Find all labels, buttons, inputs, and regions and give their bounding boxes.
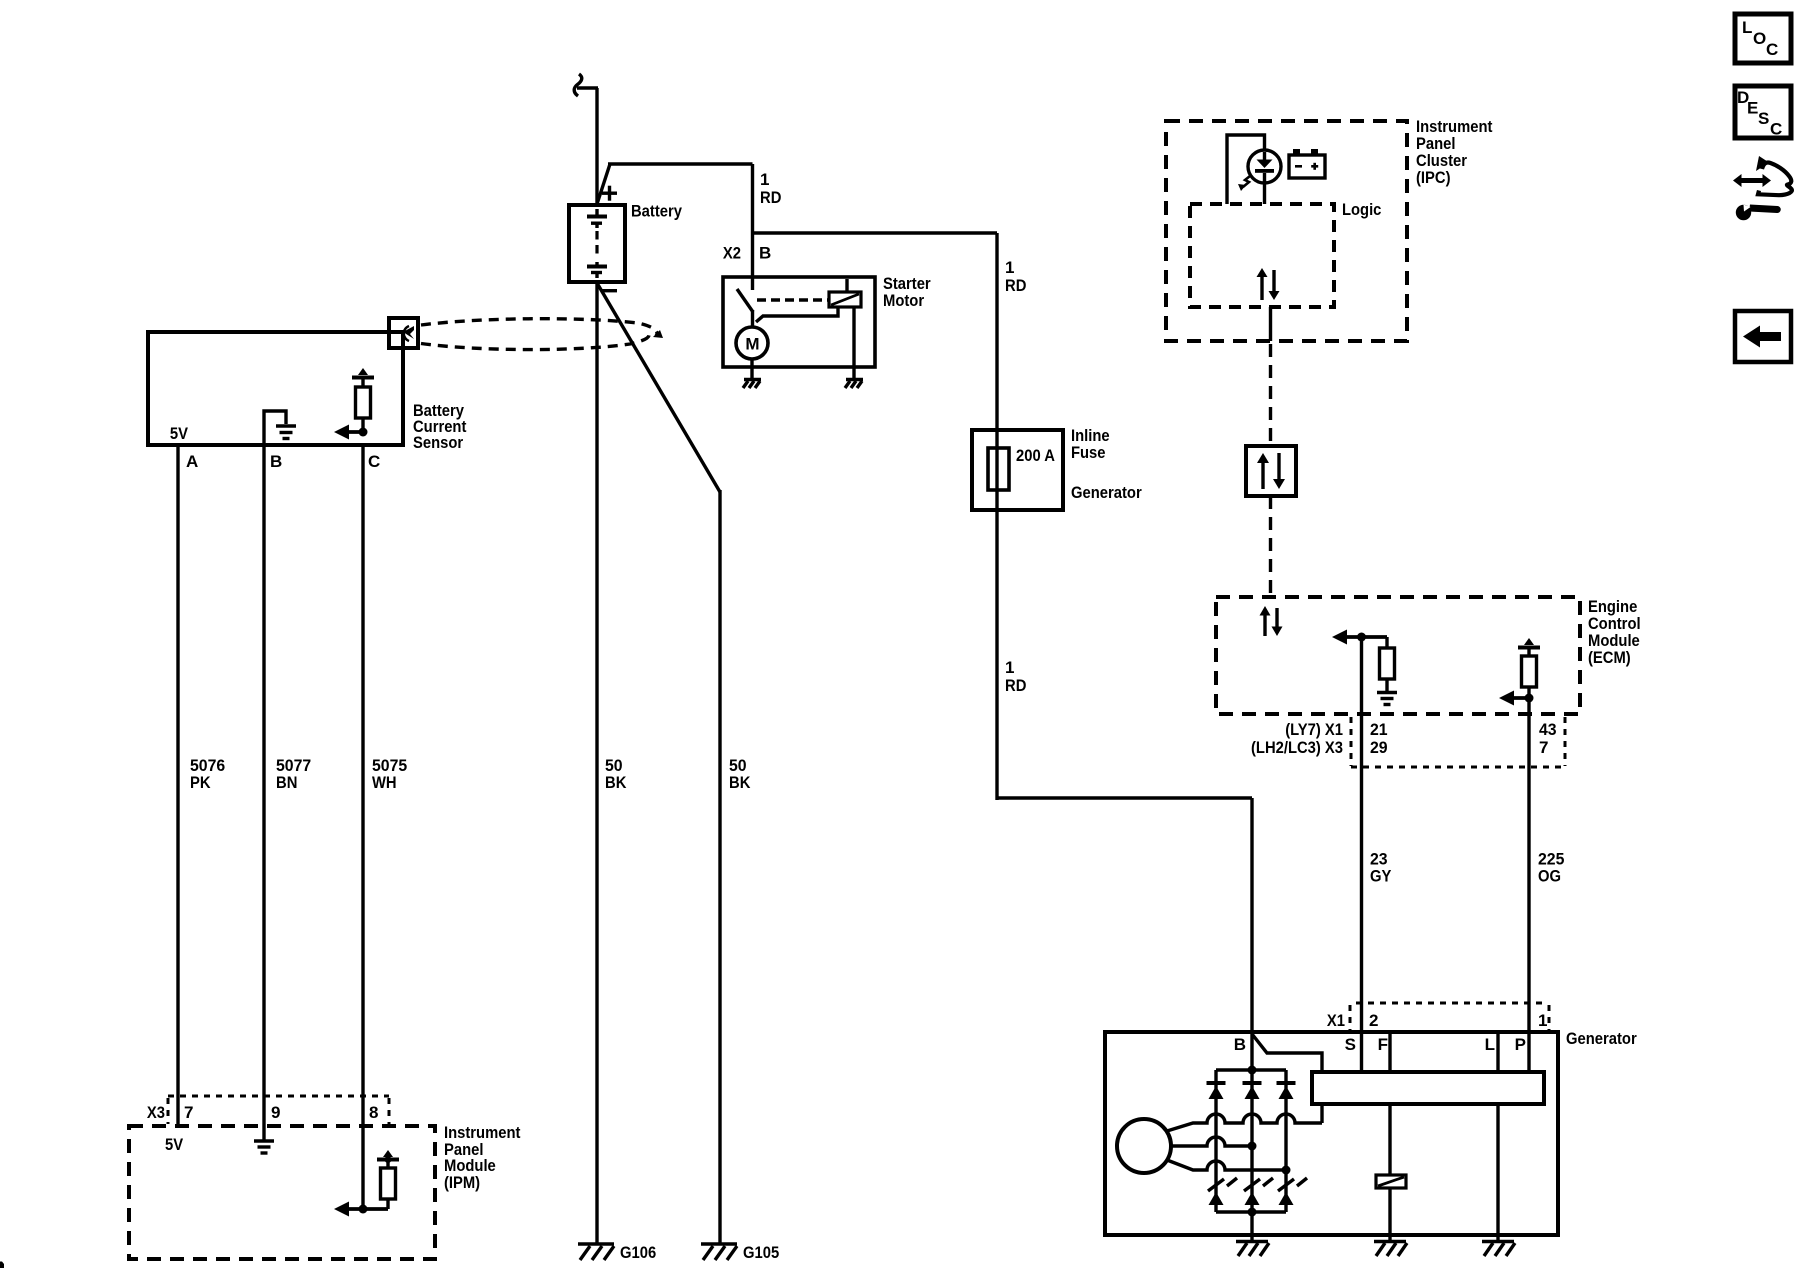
wire pin C [361,445,364,1209]
battery current sensor box [148,332,403,445]
svg-text:B: B [759,244,771,263]
rectifier bottom bus [1216,1210,1286,1213]
svg-text:8: 8 [369,1103,378,1122]
svg-text:7: 7 [1539,738,1548,757]
solenoid coil top wire [845,279,848,292]
svg-text:RD: RD [1005,276,1026,295]
lasso arrow tip [653,330,663,338]
B pin diagonal to regulator [1252,1034,1322,1072]
wire battery positive cable (top) [595,88,598,205]
IPC telltale wire loop [1227,135,1265,204]
ECM connector dotted box [1351,717,1565,767]
Logic dashed box [1190,204,1334,307]
svg-text:G106: G106 [620,1243,656,1262]
svg-text:Fuse: Fuse [1071,443,1106,462]
svg-text:21: 21 [1370,720,1388,739]
svg-text:RD: RD [1005,676,1026,695]
top diode 2 [1243,1081,1262,1099]
rectifier leg 3 [1284,1070,1287,1212]
svg-text:(ECM): (ECM) [1588,648,1631,667]
field F wire to coil [1388,1104,1391,1175]
svg-text:29: 29 [1370,738,1388,757]
svg-text:F: F [1378,1035,1388,1054]
starter solenoid dashed link [757,298,828,301]
ECM pin43 element T-bar [1518,638,1540,656]
starter solenoid coil box [829,292,861,307]
phase C junction [1282,1166,1291,1175]
wire 50 BK to G105 [718,490,721,1244]
sensor element (pin C): T-bar [352,368,374,387]
wire ECM 43 to generator P [1527,698,1530,1072]
zener slash 1 [1208,1178,1237,1191]
svg-text:PK: PK [190,773,211,792]
off-page squiggle symbol [574,74,582,96]
Instrument Panel Module dashed box [129,1126,435,1259]
ECM pin21 element ground [1377,693,1397,705]
svg-text:BN: BN [276,773,297,792]
wire splice diagonal to battery + [597,164,610,204]
generator X1 connector dashed [1350,1003,1549,1030]
svg-text:2: 2 [1369,1011,1378,1030]
LED light arrow [1238,176,1250,191]
rectifier ground wire [1250,1212,1253,1240]
IPM sensor element: left arrow + junction [334,1202,388,1217]
svg-text:B: B [270,452,282,471]
ECM serial arrows [1260,606,1283,636]
rectifier leg 1 [1214,1070,1217,1212]
svg-text:BK: BK [605,773,627,792]
svg-text:E: E [1747,99,1758,118]
bottom diode 2 [1245,1192,1260,1205]
DESC box icon [1735,86,1791,139]
svg-text:X3: X3 [147,1103,165,1122]
solenoid chassis ground [845,380,863,389]
svg-text:WH: WH [372,773,397,792]
dashed serial data wire (upper) [1269,344,1272,446]
dashed serial data wire (lower) [1269,496,1272,597]
svg-text:B: B [1234,1035,1246,1054]
svg-text:P: P [1515,1035,1526,1054]
starter switch to motor wire [751,310,754,328]
svg-text:5V: 5V [170,424,189,443]
svg-text:S: S [1758,109,1769,128]
clamp glyph inside square [403,326,414,341]
svg-text:OG: OG [1538,867,1561,886]
L chassis ground [1482,1242,1515,1257]
wire pin B [262,445,265,1141]
svg-text:7: 7 [184,1103,193,1122]
wire generator B vertical [1250,798,1253,1033]
bottom diode 3 [1279,1192,1294,1205]
svg-text:X2: X2 [723,244,741,263]
svg-text:43: 43 [1539,720,1557,739]
voltage regulator box [1312,1072,1544,1104]
ground symbol inside sensor (pin B) [264,411,296,443]
rectifier bus junction [1248,1066,1257,1075]
Engine Control Module dashed box [1216,597,1580,714]
svg-text:Generator: Generator [1566,1029,1637,1048]
starter motor M circle [736,327,768,359]
wire to starter feed (horizontal) [608,162,753,165]
svg-text:Logic: Logic [1342,200,1381,219]
svg-text:L: L [1742,18,1752,37]
wire battery negative cable [595,281,598,1244]
battery + label [602,186,617,201]
svg-text:O: O [1753,29,1766,48]
svg-text:S: S [1345,1035,1356,1054]
svg-text:RD: RD [760,188,781,207]
LED indicator circle [1248,150,1281,183]
svg-text:5V: 5V [165,1135,184,1154]
zener slash 2 [1244,1178,1273,1191]
F pin line [1388,1034,1391,1072]
wire pin A [176,445,179,1126]
svg-text:Generator: Generator [1071,483,1142,502]
Instrument Panel Cluster dashed box [1166,121,1407,341]
svg-text:(IPM): (IPM) [444,1173,480,1192]
svg-text:200 A: 200 A [1016,446,1055,465]
rectifier top bus [1216,1068,1286,1071]
svg-text:A: A [186,452,198,471]
wire starter feed vertical [751,164,754,290]
wire squiggle to corner [577,86,598,89]
bottom diode 1 [1209,1192,1224,1205]
svg-text:Motor: Motor [883,291,924,310]
stator phase B row [1171,1137,1252,1146]
serial box arrows [1257,453,1285,489]
battery - label [602,289,617,292]
logic serial arrows [1257,268,1280,300]
wire ECM 21 to generator S [1360,637,1363,1072]
starter motor ground wire [750,359,753,378]
svg-text:C: C [1766,40,1778,59]
svg-text:BK: BK [729,773,751,792]
svg-text:Battery: Battery [631,202,682,221]
svg-text:L: L [1485,1035,1495,1054]
inline fuse box [972,430,1063,510]
LOC box icon [1735,14,1791,63]
rectifier leg 2 (B) [1250,1034,1253,1212]
ground G105 [701,1244,737,1260]
svg-text:M: M [745,335,759,354]
ground G106 [578,1244,614,1260]
svg-text:(LY7) X1: (LY7) X1 [1285,720,1343,739]
solenoid coil ground wire [852,307,855,378]
IPM sensor element T-bar [377,1150,399,1168]
zener slash 3 [1278,1178,1307,1191]
IPM sensor element resistor [381,1168,396,1209]
ECM pin43 element resistor [1522,656,1537,687]
bottom bus junction [1248,1208,1257,1217]
sensor element resistor [356,387,371,418]
wire diagonal branch to G105 [597,283,720,492]
svg-text:X1: X1 [1327,1011,1345,1030]
svg-text:C: C [368,452,380,471]
diagnostic wrench icon [1733,156,1792,220]
ECM pin21 element resistor [1380,637,1395,691]
wire branch to inline fuse [753,231,998,234]
page edge artifact [0,1262,4,1269]
regulator to stator sense wire [1320,1104,1323,1123]
ECM pin43 element junction + left arrow [1499,687,1534,706]
field coil to ground wire [1388,1188,1391,1240]
starter motor box [723,277,875,367]
connector X3 dotted (IPM) [168,1096,389,1124]
svg-text:G105: G105 [743,1243,779,1262]
stator phase C row [1167,1160,1286,1170]
svg-text:1: 1 [1005,258,1014,277]
generator box [1105,1032,1558,1235]
wire logic to IPC edge [1269,307,1272,341]
wire to inline fuse [995,233,998,800]
serial data connector box [1246,446,1296,496]
LED diode symbol [1255,152,1274,204]
sensor element junction + left arrow [334,418,368,440]
svg-text:(LH2/LC3) X3: (LH2/LC3) X3 [1251,738,1343,757]
battery box [569,205,625,282]
svg-text:(IPC): (IPC) [1416,168,1451,187]
L wire to ground [1496,1104,1499,1240]
ground symbol in IPM (pin 9) [254,1141,274,1153]
back arrow box icon [1735,311,1791,362]
svg-text:1: 1 [1005,658,1014,677]
svg-text:C: C [1770,120,1782,139]
starter switch arm [737,289,753,312]
stator phase A row [1167,1114,1322,1131]
stator circle [1117,1119,1171,1173]
phase B junction [1248,1142,1257,1151]
battery plates [587,209,607,278]
wire fuse to generator B horizontal [997,796,1252,799]
starter motor chassis ground [743,380,761,389]
field coil box [1376,1175,1406,1188]
svg-text:9: 9 [271,1103,280,1122]
svg-text:Sensor: Sensor [413,433,463,452]
top diode 1 [1207,1081,1226,1099]
IPC battery icon [1289,149,1325,178]
dashed lasso ellipse around battery cable [421,319,657,350]
L pin line [1496,1034,1499,1072]
top diode 3 [1277,1081,1296,1099]
fuse element [988,448,1009,490]
field chassis ground [1374,1242,1407,1257]
ECM pin21 element: left arrow + junction [1332,630,1387,645]
rectifier chassis ground [1236,1242,1269,1257]
battery current sensor clamp connector square [389,318,418,348]
svg-text:GY: GY [1370,867,1392,886]
svg-text:1: 1 [1538,1011,1547,1030]
solenoid contact wire [756,307,838,322]
svg-text:1: 1 [760,170,769,189]
